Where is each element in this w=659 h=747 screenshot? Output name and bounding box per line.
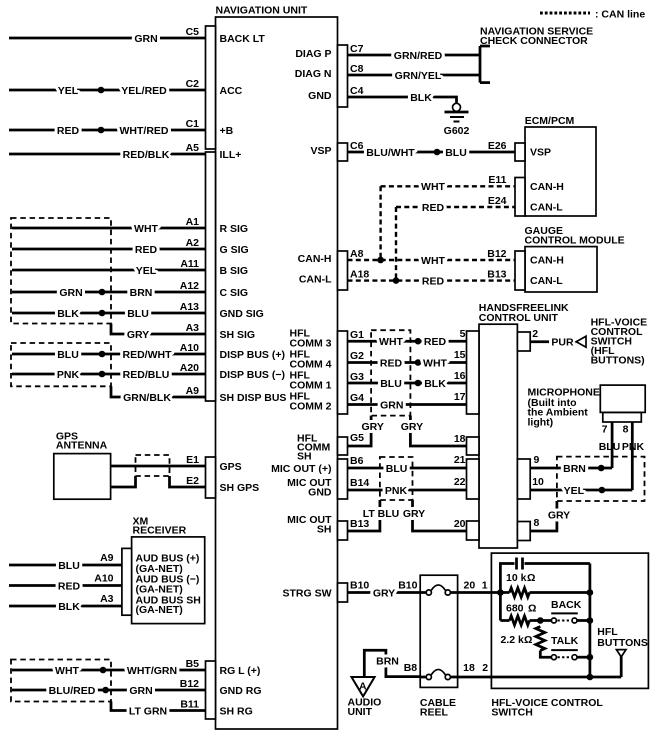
- svg-text:COMM 2: COMM 2: [290, 401, 332, 413]
- svg-text:C8: C8: [350, 63, 364, 75]
- svg-text:DISP BUS (−): DISP BUS (−): [220, 369, 285, 381]
- svg-text:ECM/PCM: ECM/PCM: [525, 115, 575, 127]
- svg-text:E1: E1: [186, 454, 199, 466]
- svg-text:PUR: PUR: [551, 337, 574, 349]
- svg-text:A1: A1: [186, 216, 200, 228]
- svg-text:RED: RED: [57, 125, 80, 137]
- ground G602: [444, 103, 470, 137]
- mic shield dashed box: [557, 457, 645, 501]
- svg-text:BLK: BLK: [58, 601, 80, 613]
- svg-text:CAN-L: CAN-L: [299, 274, 332, 286]
- svg-text:CAN-L: CAN-L: [530, 202, 563, 214]
- svg-text:A9: A9: [186, 385, 200, 397]
- svg-text:B10: B10: [398, 580, 417, 592]
- wire pin8 GRY shield drain: [530, 501, 570, 531]
- wire G3 BLU/BLK (HFL COMM 1 - pin 16): [290, 370, 467, 392]
- navigation unit box: [216, 5, 338, 730]
- wire E1 GPS coax: [111, 454, 242, 473]
- svg-text:CAN-H: CAN-H: [530, 181, 564, 193]
- svg-text:17: 17: [454, 391, 466, 403]
- svg-text:B14: B14: [350, 477, 369, 489]
- svg-text:BLK: BLK: [57, 308, 79, 320]
- svg-text:GPS: GPS: [220, 461, 242, 473]
- svg-text:PNK: PNK: [57, 369, 80, 381]
- svg-text:A3: A3: [100, 593, 114, 605]
- svg-text:BLU: BLU: [386, 463, 408, 475]
- svg-text:NAVIGATION UNIT: NAVIGATION UNIT: [216, 5, 308, 17]
- svg-text:DIAG P: DIAG P: [295, 48, 331, 60]
- XM receiver connector strip: [122, 548, 132, 615]
- svg-text:ACC: ACC: [220, 85, 243, 97]
- wire pin2 PUR to HFL voice switch: [530, 328, 586, 349]
- wire A20 PNK/RED-BLU (DISP BUS -): [12, 362, 285, 381]
- svg-text:SH: SH: [317, 524, 332, 536]
- wire XM A9 BLU: [9, 552, 122, 572]
- nav connector strip C6: [338, 143, 348, 161]
- shield box 3 RG: [11, 660, 111, 702]
- svg-text:BLU: BLU: [57, 349, 79, 361]
- svg-text:WHT: WHT: [134, 223, 158, 235]
- svg-text:18: 18: [454, 433, 466, 445]
- cable reel upper contact: [420, 580, 488, 596]
- svg-text:B12: B12: [487, 248, 506, 260]
- svg-text:RED: RED: [380, 358, 403, 370]
- nav connector strip G5: [338, 437, 348, 455]
- wire B11 LT GRN shield drain (SH RG): [111, 699, 253, 718]
- svg-text:BLU: BLU: [380, 378, 402, 390]
- svg-text:20: 20: [464, 580, 476, 592]
- svg-text:BLU/RED: BLU/RED: [49, 685, 96, 697]
- svg-text:E2: E2: [186, 475, 199, 487]
- svg-text:CONTROL UNIT: CONTROL UNIT: [479, 312, 559, 324]
- wire A11 YEL (B SIG): [12, 258, 248, 277]
- svg-text:680: 680: [506, 603, 524, 615]
- wire B10 GRY (STRG SW): [283, 580, 421, 600]
- wire B8 BRN from audio unit: [364, 650, 420, 677]
- CAN wire A18 RED (CAN-L): [299, 269, 515, 288]
- shield drain GRY to pin 20: [403, 500, 467, 531]
- svg-text:SWITCH: SWITCH: [491, 707, 532, 719]
- svg-text:CAN-L: CAN-L: [530, 275, 563, 287]
- wire B5 WHT/WHT-GRN (RG L +): [12, 658, 260, 677]
- nav connector strip C7/C8/C4: [338, 45, 348, 107]
- svg-text:LT GRN: LT GRN: [129, 706, 167, 718]
- svg-text:A11: A11: [180, 258, 199, 270]
- svg-text:E24: E24: [488, 195, 507, 207]
- svg-text:C4: C4: [350, 85, 364, 97]
- shield box 1 RGB signal: [11, 218, 111, 324]
- svg-text:C6: C6: [350, 140, 364, 152]
- wire A12 GRN/BRN (C SIG): [12, 280, 248, 299]
- svg-text:TALK: TALK: [551, 635, 579, 647]
- switch input wire pin1: [458, 589, 510, 596]
- svg-text:BLU/WHT: BLU/WHT: [366, 147, 415, 159]
- svg-text:CAN-H: CAN-H: [530, 255, 564, 267]
- svg-text:B6: B6: [350, 455, 364, 467]
- svg-text:GRY: GRY: [401, 421, 423, 433]
- svg-text:WHT: WHT: [423, 358, 447, 370]
- svg-text:G5: G5: [350, 432, 364, 444]
- svg-text:VSP: VSP: [310, 145, 331, 157]
- svg-text:G3: G3: [350, 371, 364, 383]
- nav connector strip G1-G4: [338, 331, 348, 414]
- svg-text:RED: RED: [424, 336, 447, 348]
- wire B12 BLU-RED/GRN (GND RG): [12, 678, 262, 697]
- svg-text:A8: A8: [350, 248, 364, 260]
- svg-text:G2: G2: [350, 350, 364, 362]
- mic lead 7 BLU: [611, 422, 614, 468]
- wire A3 GRY shield drain (SH SIG): [111, 322, 255, 341]
- CAN wire E24 RED: [396, 195, 515, 214]
- CAN vertical link RED: [393, 207, 400, 284]
- mic out shield dashed box: [380, 457, 413, 500]
- resistor 2.2 kOhm + TALK switch: [501, 627, 594, 661]
- svg-text:10 k: 10 k: [506, 572, 527, 584]
- wire C7 GRN/RED (DIAG P): [295, 43, 480, 62]
- GPS antenna box: [54, 431, 111, 500]
- svg-text:B13: B13: [350, 518, 369, 530]
- svg-text:BRN: BRN: [130, 287, 153, 299]
- wire pin9 BRN: [530, 454, 612, 475]
- svg-text:8: 8: [534, 517, 540, 529]
- ECM/PCM box: [515, 115, 596, 216]
- svg-text:1: 1: [482, 580, 488, 592]
- svg-text:YEL: YEL: [564, 485, 585, 497]
- wire B14 PNK (MIC OUT GND - pin 22): [287, 476, 466, 499]
- svg-text:WHT: WHT: [421, 255, 445, 267]
- wire C5 GRN (BACK LT): [9, 26, 265, 45]
- svg-text:B10: B10: [350, 580, 369, 592]
- svg-text:A13: A13: [180, 301, 199, 313]
- switch right bus: [589, 564, 592, 678]
- wire A1 WHT (R SIG): [12, 216, 248, 235]
- mic lead 8 PNK: [631, 422, 634, 490]
- svg-text:BLU: BLU: [58, 560, 80, 572]
- shield drain GRY to G5: [297, 416, 384, 463]
- svg-text:SH DISP BUS: SH DISP BUS: [220, 392, 287, 404]
- svg-text:2: 2: [532, 328, 538, 340]
- svg-text:GRY: GRY: [362, 421, 384, 433]
- svg-text:PNK: PNK: [385, 485, 408, 497]
- svg-text:WHT: WHT: [55, 665, 79, 677]
- cable reel lower contact: [420, 662, 488, 680]
- resistor 10 kOhm: [506, 572, 593, 597]
- wire A10 BLU/RED-WHT (DISP BUS +): [12, 342, 285, 361]
- svg-text:VSP: VSP: [530, 147, 551, 159]
- svg-text:UNIT: UNIT: [348, 706, 373, 718]
- svg-text:GRY: GRY: [548, 510, 570, 522]
- svg-text:G1: G1: [350, 329, 364, 341]
- svg-text:A: A: [359, 681, 367, 693]
- shield drain GRY to pin 18: [401, 416, 467, 446]
- svg-text:STRG SW: STRG SW: [283, 588, 332, 600]
- svg-text:DISP BUS (+): DISP BUS (+): [220, 349, 285, 361]
- svg-text:2.2 k: 2.2 k: [501, 634, 525, 646]
- svg-text:BUTTONS): BUTTONS): [591, 355, 645, 367]
- GPS coax shield dashed box: [136, 455, 170, 476]
- svg-text:A3: A3: [186, 322, 200, 334]
- capacitor branch: [500, 558, 590, 621]
- svg-text:10: 10: [532, 476, 544, 488]
- svg-text:CHECK CONNECTOR: CHECK CONNECTOR: [480, 35, 588, 47]
- CAN wire A8 WHT (CAN-H): [298, 248, 515, 267]
- wire A5 RED/BLK (ILL+): [9, 142, 241, 161]
- svg-text:G602: G602: [444, 125, 470, 137]
- nav connector strip B6/B14: [338, 459, 348, 499]
- svg-text:2: 2: [482, 662, 488, 674]
- svg-text:SH: SH: [297, 451, 312, 463]
- svg-text:CONTROL MODULE: CONTROL MODULE: [525, 235, 625, 247]
- svg-text:RED: RED: [58, 581, 81, 593]
- svg-text:GRY: GRY: [127, 329, 149, 341]
- svg-text:B5: B5: [186, 658, 200, 670]
- HFL comm shield dashed box: [371, 330, 410, 415]
- svg-text:DIAG N: DIAG N: [295, 68, 332, 80]
- wire G1 WHT/RED (HFL COMM 3 - pin 5): [290, 328, 467, 350]
- wire G4 GRN (HFL COMM 2 - pin 17): [290, 391, 467, 413]
- svg-text:MIC OUT (+): MIC OUT (+): [271, 463, 331, 475]
- wire C1 RED/WHT-RED (+B): [9, 118, 234, 137]
- nav connector strip C5/C2/C1: [206, 26, 216, 149]
- wire C6 BLU-WHT/BLU (VSP): [310, 140, 515, 159]
- svg-text:RED: RED: [135, 244, 158, 256]
- svg-text:E26: E26: [488, 140, 507, 152]
- svg-text:GRN/YEL: GRN/YEL: [395, 70, 442, 82]
- svg-text:16: 16: [454, 370, 466, 382]
- svg-text:GND RG: GND RG: [220, 685, 262, 697]
- svg-text:RED/BLU: RED/BLU: [123, 369, 170, 381]
- svg-text:7: 7: [602, 423, 608, 435]
- svg-text:C SIG: C SIG: [220, 287, 249, 299]
- svg-text:GND: GND: [308, 487, 332, 499]
- svg-text:C2: C2: [186, 78, 200, 90]
- svg-text:A5: A5: [186, 142, 200, 154]
- wire XM A3 BLK: [9, 593, 122, 613]
- wire C8 GRN/YEL (DIAG N): [295, 63, 480, 82]
- nav connector strip B5/B12/B11: [206, 661, 216, 719]
- svg-text:SH RG: SH RG: [220, 706, 253, 718]
- svg-text:CAN-H: CAN-H: [298, 253, 332, 265]
- label HFL-VOICE CONTROL SWITCH (HFL BUTTONS): [591, 317, 648, 367]
- svg-text:GRY: GRY: [373, 588, 395, 600]
- svg-text:RG L (+): RG L (+): [220, 665, 261, 677]
- svg-text:(GA-NET): (GA-NET): [136, 604, 183, 616]
- legend: CAN line: [540, 9, 645, 21]
- shield drain LT BLU from B13: [287, 500, 399, 536]
- svg-text:SH SIG: SH SIG: [220, 329, 256, 341]
- svg-text:WHT/GRN: WHT/GRN: [127, 665, 177, 677]
- svg-text:21: 21: [454, 454, 466, 466]
- svg-text:WHT: WHT: [379, 336, 403, 348]
- svg-text:A18: A18: [350, 269, 369, 281]
- svg-text:BACK LT: BACK LT: [220, 33, 266, 45]
- svg-text:A2: A2: [186, 237, 200, 249]
- svg-text:C1: C1: [186, 118, 200, 130]
- microphone box: [528, 385, 646, 453]
- svg-text:SH GPS: SH GPS: [220, 482, 260, 494]
- svg-text:ILL+: ILL+: [220, 149, 242, 161]
- svg-text:YEL: YEL: [58, 85, 79, 97]
- nav connector strip B13: [338, 521, 348, 540]
- svg-text:GRN/RED: GRN/RED: [394, 50, 443, 62]
- svg-text:BLK: BLK: [424, 378, 446, 390]
- svg-text:B11: B11: [180, 699, 199, 711]
- svg-text:ANTENNA: ANTENNA: [56, 440, 108, 452]
- svg-text:5: 5: [460, 328, 466, 340]
- svg-text:Ω: Ω: [528, 603, 536, 615]
- svg-text:C5: C5: [186, 26, 200, 38]
- resistor 680 Ohm + BACK switch: [500, 599, 593, 625]
- svg-text:GRN: GRN: [59, 287, 82, 299]
- svg-text:YEL/RED: YEL/RED: [121, 85, 167, 97]
- nav connector strip B10: [338, 583, 348, 602]
- svg-text:A12: A12: [180, 280, 199, 292]
- svg-text:RED: RED: [422, 276, 445, 288]
- svg-text:A10: A10: [94, 573, 113, 585]
- HFL voice control switch box: [491, 553, 648, 718]
- svg-text:GND: GND: [308, 90, 332, 102]
- navigation service check connector: [480, 26, 593, 83]
- svg-text:light): light): [528, 416, 554, 428]
- svg-text:RED/BLK: RED/BLK: [123, 149, 170, 161]
- svg-text:GND SIG: GND SIG: [220, 308, 264, 320]
- svg-text:RECEIVER: RECEIVER: [133, 525, 187, 537]
- svg-text:22: 22: [454, 476, 466, 488]
- svg-text:BLU: BLU: [127, 308, 149, 320]
- svg-text:GRN: GRN: [134, 33, 157, 45]
- wire A2 RED (G SIG): [12, 237, 249, 256]
- svg-text:20: 20: [454, 518, 466, 530]
- XM receiver box: [132, 516, 205, 624]
- svg-text:REEL: REEL: [420, 707, 449, 719]
- svg-text:BLU: BLU: [599, 441, 621, 453]
- switch bottom wire pin2/18: [458, 674, 622, 681]
- svg-text:A20: A20: [180, 362, 199, 374]
- CAN wire E11 WHT: [381, 174, 515, 193]
- svg-text:8: 8: [623, 423, 629, 435]
- svg-text:18: 18: [463, 662, 475, 674]
- svg-text:9: 9: [534, 454, 540, 466]
- svg-text:G4: G4: [350, 392, 364, 404]
- nav connector strip A8/A18: [338, 251, 348, 290]
- svg-text:GRY: GRY: [403, 508, 425, 520]
- wire G2 RED/WHT (HFL COMM 4 - pin 15): [290, 349, 467, 371]
- gauge control module box: [515, 225, 625, 292]
- svg-text:Ω: Ω: [527, 572, 535, 584]
- CAN vertical link WHT: [377, 186, 384, 263]
- wire C2 YEL/YEL-RED (ACC): [9, 78, 243, 97]
- nav connector strip A5..A9: [206, 152, 216, 401]
- handsfreelink control unit box: [467, 302, 570, 548]
- svg-text:BRN: BRN: [563, 463, 586, 475]
- svg-text:: CAN line: : CAN line: [595, 9, 645, 21]
- svg-text:BUTTONS: BUTTONS: [597, 637, 648, 649]
- svg-text:C7: C7: [350, 43, 364, 55]
- svg-text:B13: B13: [487, 269, 506, 281]
- svg-text:RED/WHT: RED/WHT: [123, 349, 173, 361]
- svg-text:GRN: GRN: [129, 685, 152, 697]
- svg-text:R SIG: R SIG: [220, 223, 249, 235]
- svg-text:B12: B12: [180, 678, 199, 690]
- wire XM A10 RED: [9, 573, 122, 593]
- wire A9 GRN/BLK shield drain (SH DISP BUS): [111, 385, 286, 404]
- svg-text:E11: E11: [488, 174, 506, 186]
- audio unit symbol A: [348, 677, 382, 718]
- svg-text:+B: +B: [220, 125, 234, 137]
- wire pin10 YEL: [530, 476, 632, 497]
- svg-text:WHT: WHT: [421, 181, 445, 193]
- wire C4 BLK (GND): [308, 85, 456, 104]
- svg-text:GRN/BLK: GRN/BLK: [123, 392, 171, 404]
- wire A13 BLK/BLU (GND SIG): [12, 301, 264, 320]
- svg-text:WHT/RED: WHT/RED: [120, 125, 169, 137]
- svg-text:YEL: YEL: [136, 265, 157, 277]
- svg-text:B SIG: B SIG: [220, 265, 249, 277]
- shield box 2 disp bus: [11, 343, 111, 386]
- wire B6 BLU (MIC OUT + - pin 21): [271, 454, 466, 475]
- nav connector strip E1/E2: [206, 457, 216, 498]
- svg-text:Ω: Ω: [524, 634, 532, 646]
- svg-text:BLK: BLK: [410, 92, 432, 104]
- wire E2 SH GPS shield drain: [111, 475, 260, 494]
- HFL buttons symbol: [597, 626, 648, 677]
- svg-text:BACK: BACK: [551, 599, 582, 611]
- svg-text:BRN: BRN: [376, 656, 399, 668]
- svg-text:GRN: GRN: [380, 400, 403, 412]
- svg-text:B8: B8: [404, 662, 418, 674]
- svg-text:A10: A10: [180, 342, 199, 354]
- svg-text:RED: RED: [422, 202, 445, 214]
- cable reel box: [420, 575, 458, 718]
- svg-text:G SIG: G SIG: [220, 244, 249, 256]
- svg-text:BLU: BLU: [445, 147, 467, 159]
- svg-text:15: 15: [454, 349, 466, 361]
- svg-text:A9: A9: [100, 552, 114, 564]
